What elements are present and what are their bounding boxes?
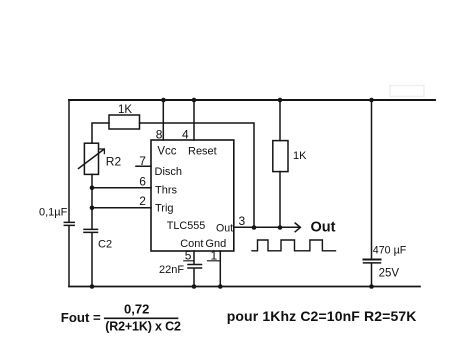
svg-text:C2: C2 [98, 239, 112, 251]
svg-text:TLC555: TLC555 [167, 220, 205, 232]
svg-text:8: 8 [156, 127, 163, 141]
svg-text:Vcc: Vcc [157, 146, 176, 158]
svg-text:pour 1Khz C2=10nF R2=57K: pour 1Khz C2=10nF R2=57K [227, 308, 417, 324]
svg-text:22nF: 22nF [159, 264, 184, 276]
svg-text:5: 5 [185, 249, 192, 263]
svg-text:470 µF: 470 µF [373, 245, 407, 257]
svg-text:Fout =: Fout = [61, 310, 101, 325]
svg-text:Out: Out [311, 220, 336, 236]
svg-text:1K: 1K [118, 104, 132, 116]
svg-text:3: 3 [239, 214, 246, 228]
svg-text:1: 1 [211, 249, 218, 263]
svg-text:Out: Out [216, 222, 233, 234]
svg-text:R2: R2 [106, 155, 122, 169]
svg-text:2: 2 [139, 194, 146, 208]
svg-text:4: 4 [182, 127, 189, 141]
svg-text:0,72: 0,72 [124, 301, 149, 316]
svg-text:1K: 1K [293, 150, 307, 162]
svg-text:7: 7 [139, 154, 146, 168]
svg-text:Thrs: Thrs [155, 185, 178, 197]
svg-text:(R2+1K) x C2: (R2+1K) x C2 [105, 320, 181, 334]
svg-text:25V: 25V [379, 267, 400, 279]
svg-text:6: 6 [139, 175, 146, 189]
svg-text:Reset: Reset [188, 146, 217, 158]
svg-text:Cont: Cont [180, 238, 203, 250]
svg-text:0,1µF: 0,1µF [39, 206, 68, 218]
svg-text:Disch: Disch [155, 166, 183, 178]
svg-text:Trig: Trig [155, 202, 174, 214]
